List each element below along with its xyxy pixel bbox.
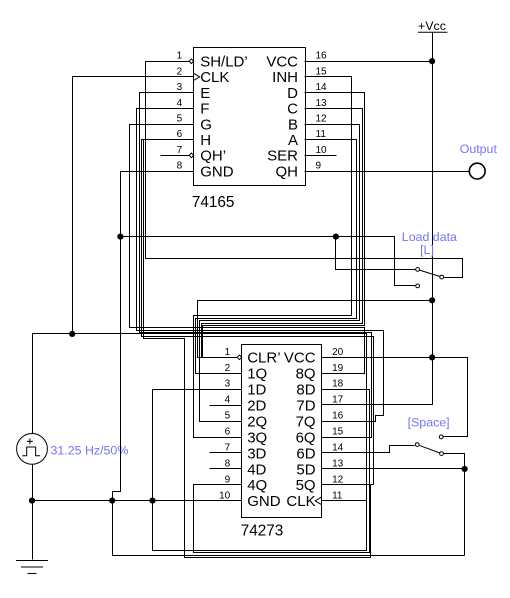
wire 74165 pin8 GND down to ground rail — [113, 172, 194, 501]
wire CLK net to 74165 pin2 — [73, 77, 194, 334]
wire A pin11 to 1Q — [196, 140, 357, 374]
wire CLR' to +Vcc — [198, 301, 432, 358]
wire 5D long wire — [322, 468, 465, 470]
svg-text:15: 15 — [316, 66, 328, 77]
wire +Vcc vertical rail down to 7D — [322, 33, 433, 405]
svg-text:CLK: CLK — [286, 493, 315, 510]
svg-text:4D: 4D — [247, 461, 266, 478]
svg-text:2: 2 — [225, 363, 231, 374]
switch S2 lever — [419, 445, 440, 453]
wire 3D stub — [210, 452, 242, 454]
U1 pin2 clock marker — [193, 73, 200, 81]
svg-text:SH/LD’: SH/LD’ — [200, 54, 248, 71]
svg-text:7Q: 7Q — [296, 413, 316, 430]
wire 4D stub — [210, 468, 242, 470]
svg-text:CLK: CLK — [200, 69, 229, 86]
IC U2 74273 body — [242, 345, 322, 518]
switch S1 closed throw contact — [440, 275, 444, 279]
svg-text:8: 8 — [177, 161, 183, 172]
wire B pin12 to 2Q — [200, 125, 360, 422]
wire QH' stub — [161, 155, 190, 157]
svg-text:19: 19 — [332, 363, 344, 374]
wire ground bottom run — [113, 501, 465, 556]
wire E pin3 to 6Q — [140, 93, 372, 438]
node +Vcc at pin20 VCC — [429, 354, 435, 360]
svg-text:2Q: 2Q — [247, 413, 267, 430]
svg-text:[L]: [L] — [420, 243, 434, 257]
svg-text:74273: 74273 — [241, 523, 284, 540]
wire clock bottom to ground — [32, 465, 34, 560]
svg-text:Load data: Load data — [402, 230, 457, 244]
wire F pin4 to 7Q — [137, 109, 384, 422]
svg-text:INH: INH — [272, 69, 298, 86]
svg-text:4Q: 4Q — [247, 477, 267, 494]
U2 pin11 clock marker — [315, 497, 322, 505]
IC U1 74165 body — [194, 48, 306, 186]
wire SH/LD pin1 to load-data switch — [146, 62, 463, 278]
svg-text:6Q: 6Q — [296, 429, 316, 446]
wire 74273 pin11 CLK stub — [322, 500, 367, 502]
svg-text:5D: 5D — [296, 461, 315, 478]
wire D pin14 to CLR row — [203, 93, 365, 358]
node +Vcc at pin16 — [429, 58, 435, 64]
svg-text:9: 9 — [316, 161, 322, 172]
inverted-output diamond U1 pin7 — [189, 153, 194, 158]
wire clock top to CLK node — [33, 334, 73, 434]
wire VCC pin20 to +Vcc rail — [322, 357, 433, 359]
svg-text:13: 13 — [332, 458, 344, 469]
svg-text:GND: GND — [200, 163, 234, 180]
ground symbol — [16, 561, 48, 574]
svg-text:16: 16 — [316, 51, 328, 62]
svg-text:GND: GND — [247, 493, 281, 510]
svg-text:D: D — [287, 85, 298, 102]
svg-text:11: 11 — [316, 129, 327, 140]
svg-text:6D: 6D — [296, 445, 315, 462]
wire INH pin15 to 3Q — [194, 77, 352, 438]
node ground rail at clock — [29, 498, 35, 504]
inverted-input diamond U2 pin1 CLR' — [237, 355, 242, 360]
output terminal circle — [469, 163, 485, 179]
svg-text:VCC: VCC — [266, 54, 298, 71]
svg-text:A: A — [288, 132, 298, 149]
svg-text:E: E — [200, 85, 210, 102]
svg-text:10: 10 — [219, 490, 231, 501]
svg-text:G: G — [200, 116, 212, 133]
svg-text:2: 2 — [177, 66, 183, 77]
svg-text:7D: 7D — [296, 397, 315, 414]
svg-text:7: 7 — [225, 443, 231, 454]
svg-text:1Q: 1Q — [247, 366, 267, 383]
switch S2 upper throw contact — [439, 435, 443, 439]
svg-text:16: 16 — [332, 411, 344, 422]
svg-text:VCC: VCC — [284, 350, 316, 367]
wire ground rail — [33, 500, 242, 502]
svg-text:14: 14 — [332, 443, 344, 454]
wire 6D to space common — [322, 446, 415, 453]
svg-text:11: 11 — [332, 490, 343, 501]
svg-text:C: C — [287, 101, 298, 118]
wire VCC pin16 to +Vcc rail — [305, 61, 433, 63]
svg-text:3Q: 3Q — [247, 429, 267, 446]
wire ground to load-data switch throws — [121, 237, 416, 286]
svg-text:10: 10 — [316, 145, 328, 156]
wire G pin5 to 8Q — [130, 125, 365, 374]
switch S1 open throw contact — [416, 284, 420, 288]
node switch upper throw tee — [333, 234, 339, 240]
svg-text:5: 5 — [225, 411, 231, 422]
wire 2D stub — [210, 405, 242, 407]
wire CLK line to 74273 pin11 and bottom — [73, 334, 367, 551]
switch S1 common contact — [416, 268, 420, 272]
svg-text:1D: 1D — [247, 382, 266, 399]
svg-text:8: 8 — [225, 458, 231, 469]
svg-text:SER: SER — [267, 148, 298, 165]
svg-text:7: 7 — [177, 145, 183, 156]
svg-text:3: 3 — [177, 82, 183, 93]
svg-text:F: F — [200, 101, 209, 118]
svg-text:B: B — [288, 116, 298, 133]
svg-text:Output: Output — [460, 142, 498, 156]
node ground rail junction B — [149, 498, 155, 504]
svg-text:1: 1 — [177, 51, 183, 62]
node 5D switch junction — [462, 466, 468, 472]
inverted-input diamond U1 pin1 — [189, 59, 194, 64]
node GND drop at switch feed — [117, 234, 123, 240]
svg-text:2D: 2D — [247, 397, 266, 414]
supply +Vcc underline — [418, 31, 448, 33]
svg-text:6: 6 — [225, 427, 231, 438]
switch S2 lower throw contact — [440, 452, 444, 456]
wire 1D from ground junction — [153, 389, 242, 391]
svg-text:4: 4 — [177, 98, 183, 109]
svg-text:3D: 3D — [247, 445, 266, 462]
svg-text:CLR’: CLR’ — [247, 350, 280, 367]
svg-text:20: 20 — [332, 347, 344, 358]
svg-text:3: 3 — [225, 379, 231, 390]
wire C pin13 to CLR row — [202, 109, 363, 358]
wire H pin6 to 5Q — [142, 140, 374, 485]
svg-text:31.25 Hz/50%: 31.25 Hz/50% — [51, 444, 129, 458]
wire to load-data common contact — [336, 237, 416, 270]
svg-text:12: 12 — [332, 474, 344, 485]
svg-text:12: 12 — [316, 114, 328, 125]
svg-text:74165: 74165 — [192, 194, 235, 211]
svg-text:5: 5 — [177, 114, 183, 125]
wire space lower throw to ground line — [444, 454, 465, 556]
clock source square-wave glyph — [22, 447, 40, 456]
wire space upper throw to +Vcc — [433, 358, 468, 437]
svg-text:5Q: 5Q — [296, 477, 316, 494]
svg-text:14: 14 — [316, 82, 328, 93]
svg-text:+Vcc: +Vcc — [418, 19, 446, 33]
svg-text:8D: 8D — [296, 382, 315, 399]
svg-text:QH: QH — [276, 163, 299, 180]
node ground rail junction A — [109, 498, 115, 504]
svg-text:4: 4 — [225, 395, 231, 406]
wire 1D drop to ground rail — [152, 390, 154, 501]
node CLK branch — [69, 331, 75, 337]
svg-text:[Space]: [Space] — [408, 416, 450, 430]
svg-text:18: 18 — [332, 379, 344, 390]
svg-text:1: 1 — [225, 347, 231, 358]
svg-text:H: H — [200, 132, 211, 149]
clock source circle — [17, 434, 48, 465]
svg-text:QH’: QH’ — [200, 148, 226, 165]
wire QH'-5Q loop around bottom — [144, 140, 371, 558]
svg-text:13: 13 — [316, 98, 328, 109]
node +Vcc at CLR tie — [429, 297, 435, 303]
switch S2 common contact — [415, 443, 419, 447]
wire 4Q to 8D around bottom — [194, 390, 370, 553]
svg-text:9: 9 — [225, 474, 231, 485]
svg-text:8Q: 8Q — [296, 366, 316, 383]
wire QH pin9 to output terminal — [305, 171, 470, 173]
switch S1 lever — [420, 270, 441, 276]
svg-text:15: 15 — [332, 427, 344, 438]
wire SER pin10 stub — [305, 155, 337, 157]
clock source plus sign — [27, 438, 33, 444]
svg-text:6: 6 — [177, 129, 183, 140]
